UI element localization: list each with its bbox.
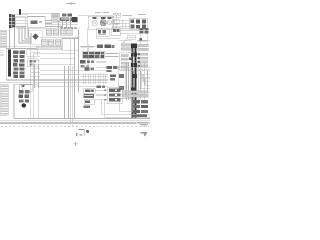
relay box K9 [28,59,38,67]
wire [78,15,112,17]
arrow head 2 [104,94,107,96]
node B junction dot [140,38,143,41]
relay cells K7 inside BCM [18,90,29,102]
relay cells K5 [80,60,94,68]
fuse rows FR3 [138,53,148,67]
ignition switch SW1 cluster [60,13,77,22]
harness comb junction J1 [19,28,31,44]
right harness trunk W1 [132,45,134,118]
relay box K1 [16,17,26,27]
frame inner line [0,120,150,122]
body control module BCM box [14,84,38,118]
node F dot [22,84,25,87]
gauge box GA1 [107,88,122,104]
wire [40,37,80,39]
wire [88,28,121,48]
control unit U3 [96,28,109,36]
sender unit row3 [84,100,95,104]
amplifier unit U2 [88,16,113,29]
frame border band [0,122,136,124]
node C3 trunk blob [131,63,137,67]
bottom big-box edge [14,118,150,120]
wire [16,14,78,29]
node A top centre fold mark [67,2,76,5]
relay cells K4 [97,44,114,48]
resistor R2 [128,35,135,39]
footer text stamp [138,122,149,127]
wire [0,46,36,55]
relay box K8 [27,50,38,57]
transistor Q2 [100,17,106,26]
motor symbol inside M1 [31,20,43,24]
control unit U4 [112,28,121,36]
fuse array FA1 [13,51,25,79]
connector C101 [9,14,15,28]
module M1 [27,17,45,28]
sender unit row2 [83,94,93,98]
sensor G1 [84,106,90,109]
connector box C105 [120,53,133,70]
wire [7,49,41,77]
nested box corners bottom right [102,100,150,117]
label text right harness [138,41,147,42]
wire [119,30,151,40]
wire [10,28,15,49]
relay cells K11 [110,74,116,80]
node D blob on trunk [132,74,137,78]
node E blob on trunk [131,88,137,92]
fuse rows FR2 right of trunk [138,44,149,51]
wire diagonal [122,38,127,44]
relay cells K10 [107,66,118,72]
sub box inside BCM [20,85,33,91]
big box outline left [31,46,75,118]
relay cells K6 right bottom [133,100,148,117]
node C1 trunk blob [131,44,137,48]
junction box outline [29,30,43,44]
wire [112,20,130,30]
ground bus lines [0,71,108,87]
fuse F1 [19,9,21,15]
connector box C107 [120,98,132,112]
harness hatch block [83,74,106,85]
arrow head 1 [104,89,107,91]
logo mark [141,132,148,137]
note symbol N1 [76,130,89,136]
frame dashed line [1,126,149,128]
wire [138,45,140,118]
switch S1 [52,13,59,16]
label text right of R1 [123,14,147,16]
wire [113,16,129,29]
wire vertical risers [35,65,39,89]
junction block JB2 [82,51,104,58]
vertical bus wires centre [65,30,79,126]
transistor Q3 [107,17,112,25]
capacitor C1 dot [22,103,26,107]
wire [140,62,144,100]
fuse rows FR1 left of trunk [121,44,131,51]
arrow head 3 [104,99,107,101]
registration cross [73,142,78,147]
wire [46,21,78,28]
connector block C103 [85,67,94,70]
right harness trunk W2 [134,45,136,118]
wire [96,54,118,63]
wire [146,24,148,45]
label text right of FB1 [65,41,73,44]
fuse block FB1 row1 [46,29,72,36]
relay cells K12 [96,85,105,88]
fuse rows FR4 wide [122,91,148,97]
note leader dashed wire [75,127,77,138]
power distribution box PD1 [6,48,30,79]
wire [15,14,28,26]
instrument cluster IC1 labels [81,46,95,47]
resistor R1 [114,13,121,17]
wire with arrow [95,90,107,100]
label text above U2 [95,12,109,13]
terminal strip X1 [61,27,77,29]
connector arrow CN1 [33,33,39,40]
relay cells K3 [140,28,149,34]
connector bar C102 [8,50,11,77]
wire [22,84,24,90]
cascade wires right [119,62,151,100]
transistor Q1 [92,17,97,26]
instrument box IB1 [62,39,78,51]
pin dark cells beside trunk [137,53,140,66]
fuse block FB1 row2 [41,40,60,45]
relay bank K2 [129,18,147,29]
switch S2 [52,18,59,21]
left legend table TB2 [0,85,8,116]
diode D1 [114,20,119,24]
connector box C106 [118,66,125,94]
wire [80,44,97,68]
node C2 trunk blob [131,52,137,56]
wire [140,34,142,45]
node C junction dot [129,58,132,60]
terminal table TB1 [0,30,6,47]
bus bar hatched [36,46,64,49]
sender unit rows left mid [84,89,95,93]
wire [96,62,106,67]
